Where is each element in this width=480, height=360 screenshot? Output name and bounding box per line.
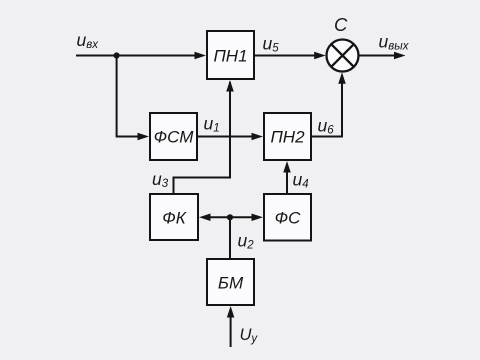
svg-text:C: C (334, 14, 348, 35)
wire input u_vx to PN1 (76, 52, 206, 60)
wire FK output u3 up into PN1 (174, 80, 234, 194)
block FSM (ФСМ) (150, 113, 197, 160)
wire mixer output u_vyx (360, 52, 406, 60)
svg-text:БМ: БМ (218, 274, 244, 293)
wire PN1 output u5 to mixer (254, 52, 326, 60)
svg-text:ФСМ: ФСМ (154, 128, 195, 147)
wire FSM output u1 to PN2 (197, 133, 263, 141)
block FK (ФК) (150, 194, 198, 240)
wire BM output u2 up to junction (229, 217, 231, 259)
block PN2 (ПН2) (264, 113, 311, 160)
wire input U_y up into BM (227, 306, 235, 347)
wire junction to FS (arrow right) (230, 214, 263, 222)
block BM (БМ) (207, 259, 254, 305)
junction node between FK and FS (227, 214, 233, 220)
block FS (ФС) (264, 194, 311, 241)
junction node on input wire (114, 52, 120, 58)
svg-text:ПН1: ПН1 (213, 47, 247, 66)
svg-text:ПН2: ПН2 (270, 128, 305, 147)
wire from junction down and right into FSM (117, 56, 149, 141)
wire junction to FK (arrow left) (199, 214, 230, 222)
block PN1 (ПН1) (207, 31, 254, 79)
svg-text:ФК: ФК (162, 209, 187, 228)
wire PN2 output u6 up into mixer (311, 72, 346, 136)
svg-text:ФС: ФС (275, 209, 302, 228)
mixer C (multiplier circle with X) (327, 40, 359, 72)
wire FS output u4 up into PN2 (283, 161, 291, 194)
